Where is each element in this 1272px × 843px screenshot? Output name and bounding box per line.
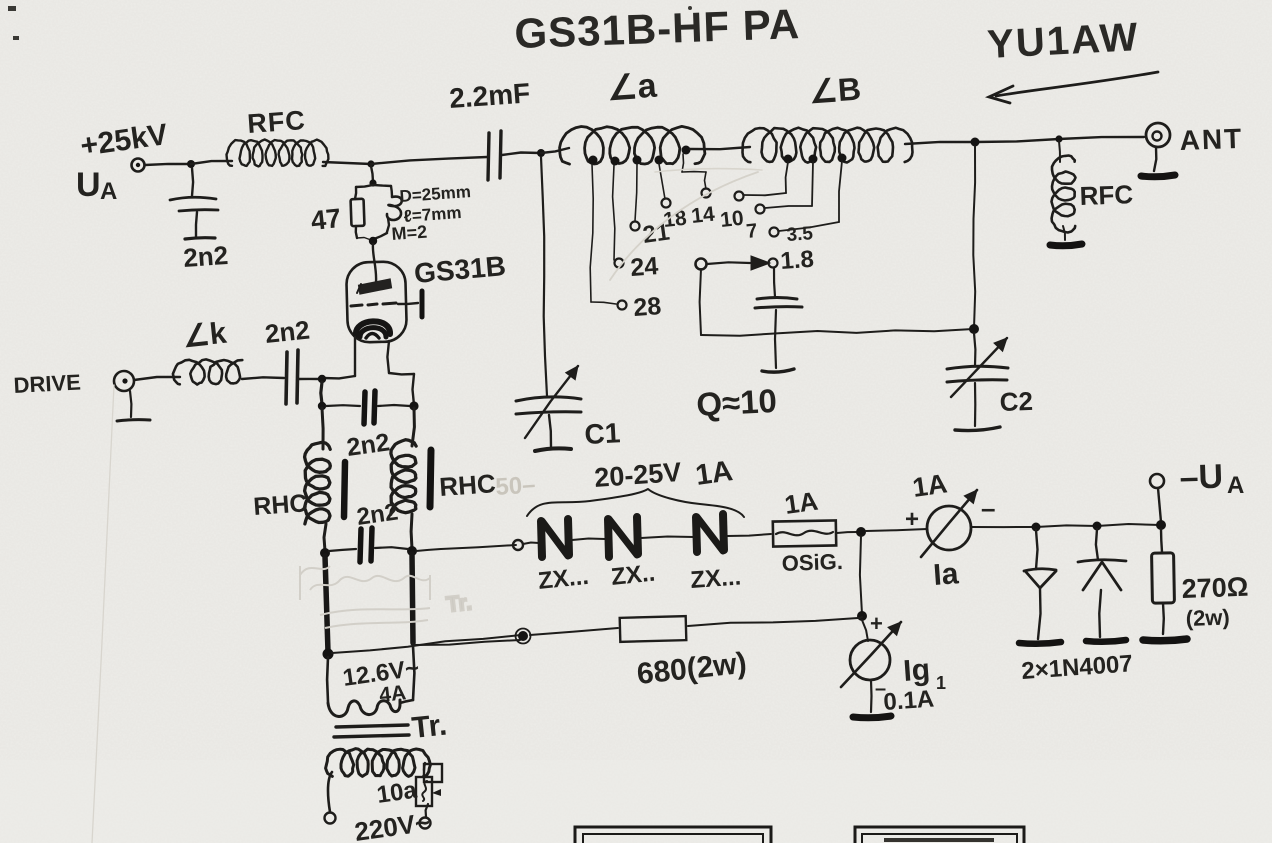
- wire junction to choke: [191, 161, 232, 164]
- wire node down: [371, 166, 373, 182]
- wire cathode to zener line: [416, 545, 516, 551]
- zener diode ZX 1: [541, 519, 569, 557]
- wire node down: [321, 382, 322, 404]
- terminal primary left: [325, 813, 336, 824]
- svg-text:7: 7: [745, 220, 758, 243]
- diode 1N4007 second: [1078, 529, 1126, 637]
- label plus Ig: [870, 611, 883, 636]
- svg-text:–U: –U: [1179, 458, 1224, 497]
- label 47: [309, 203, 342, 236]
- svg-text:M=2: M=2: [391, 222, 428, 244]
- label ZX 1: [537, 563, 590, 595]
- svg-text:2n2: 2n2: [263, 314, 311, 349]
- label 4A: [378, 681, 407, 707]
- tube anode plate: [357, 279, 391, 293]
- svg-text:RHC: RHC: [438, 468, 497, 502]
- capacitor 2n2 cathode top: [326, 391, 410, 424]
- node fuse meter: [856, 527, 866, 537]
- ghost erased transformer: [300, 566, 473, 628]
- wire choke to node: [323, 162, 371, 164]
- diode 1N4007 first: [1024, 530, 1056, 639]
- wire zener segment 1: [523, 543, 539, 545]
- capacitor 2.2nF coupling: [488, 131, 501, 180]
- node tank top: [537, 149, 545, 157]
- label Ia: [932, 557, 960, 592]
- faint fold line: [92, 385, 114, 843]
- wire zener to fuse: [727, 534, 771, 536]
- variable capacitor C2: [947, 338, 1008, 431]
- svg-text:2n2: 2n2: [355, 498, 400, 530]
- inductor RHC left: [305, 408, 331, 551]
- vacuum tube GS31B envelope: [346, 261, 407, 343]
- node RFC output: [1055, 135, 1062, 142]
- wire Ia meter to UA node: [971, 524, 1160, 527]
- wire tap 24: [613, 165, 615, 260]
- ground Ig meter: [853, 716, 891, 718]
- wire lower bias line left: [332, 635, 521, 653]
- svg-text:1A: 1A: [783, 486, 820, 520]
- wire cap to cathode node: [299, 378, 320, 381]
- node anode feed junction: [187, 160, 195, 168]
- label 1A fuse: [783, 486, 820, 520]
- ground ANT: [1141, 175, 1175, 177]
- meter Ig1: [841, 622, 901, 687]
- label Lk: [181, 317, 228, 354]
- terminal UA anode supply: [132, 159, 145, 172]
- label 20-25V 1A: [593, 455, 734, 493]
- svg-text:Q≈10: Q≈10: [695, 382, 777, 423]
- switch contact 7: [745, 205, 764, 243]
- label C2: [999, 386, 1033, 417]
- wire down to C2: [973, 146, 975, 328]
- ground RFC choke: [1050, 244, 1082, 246]
- svg-text:(2w): (2w): [1185, 604, 1230, 631]
- wire node to Ia meter: [866, 529, 927, 531]
- node Ig: [857, 611, 867, 621]
- pencil ghost arc taps: [610, 169, 762, 280]
- ground 270 ohm: [1143, 639, 1187, 641]
- label 0.1A: [883, 686, 935, 716]
- switch wiper arm: [696, 256, 771, 270]
- node zener line start: [513, 540, 523, 550]
- svg-text:RFC: RFC: [1079, 179, 1134, 211]
- wire tap 14: [682, 154, 706, 189]
- switch contact 21: [631, 218, 672, 248]
- svg-text:OSiG.: OSiG.: [781, 549, 843, 576]
- svg-text:∠k: ∠k: [181, 317, 228, 354]
- terminal DRIVE: [114, 371, 134, 391]
- svg-text:Ia: Ia: [932, 557, 960, 592]
- wire heater right to bias: [412, 640, 520, 645]
- node parasitic suppressor top: [367, 160, 374, 167]
- svg-text:GS31B-HF PA: GS31B-HF PA: [514, 0, 801, 57]
- wire bias to 680: [530, 628, 618, 635]
- capacitor 2n2 drive coupling: [286, 350, 298, 404]
- wire UA to junction: [145, 164, 191, 165]
- fuse primary 10A: [416, 764, 442, 806]
- svg-text:Tr.: Tr.: [445, 589, 473, 617]
- svg-text:2.2mF: 2.2mF: [448, 77, 531, 114]
- svg-text:U: U: [76, 166, 101, 204]
- node Q line and C2: [969, 324, 979, 334]
- svg-text:Ig: Ig: [902, 653, 931, 688]
- wire switch common down: [700, 269, 701, 335]
- svg-text:14: 14: [690, 203, 716, 228]
- wire tap 3.5: [779, 161, 842, 231]
- wire zener segment 2: [572, 539, 605, 541]
- wire choke to ground: [1063, 226, 1065, 240]
- switch contact 10: [719, 192, 745, 232]
- wire node to C2: [974, 333, 975, 366]
- svg-text:RFC: RFC: [246, 105, 306, 139]
- node cathode bottom right: [407, 546, 417, 556]
- wire node to coupling cap: [371, 157, 487, 164]
- svg-text:ANT: ANT: [1179, 123, 1244, 156]
- label minus Ia: [981, 493, 995, 523]
- label 680 2W: [635, 647, 748, 691]
- svg-text:1A: 1A: [694, 455, 735, 492]
- label 2n2 cathode bottom: [355, 498, 400, 530]
- node minus UA: [1156, 520, 1166, 530]
- transformer primary winding: [326, 749, 431, 777]
- switch contact 18: [662, 199, 689, 232]
- svg-text:YU1AW: YU1AW: [986, 15, 1140, 67]
- switch contact 24: [615, 252, 660, 282]
- svg-text:DRIVE: DRIVE: [13, 370, 81, 398]
- svg-text:1A: 1A: [911, 468, 949, 503]
- inductor RFC anode choke: [227, 140, 329, 167]
- wire minus UA to node: [1158, 488, 1161, 522]
- tube cathode legs: [323, 337, 414, 405]
- transformer secondary winding: [328, 700, 400, 716]
- svg-text:2n2: 2n2: [182, 240, 229, 273]
- wire node to bias line: [858, 617, 862, 618]
- wire tap 10: [744, 162, 788, 195]
- label M=2: [391, 222, 428, 244]
- wire switch line to C2: [701, 329, 973, 336]
- fuse 1A OSiG: [773, 520, 836, 546]
- svg-text:0.1A: 0.1A: [883, 686, 935, 716]
- tube grid lead and ground bar: [398, 291, 422, 317]
- svg-text:3.5: 3.5: [786, 223, 814, 246]
- svg-text:20-25V: 20-25V: [593, 457, 682, 493]
- stamp box left: [575, 827, 771, 843]
- capacitor 2n2 cathode bottom: [329, 528, 408, 562]
- brace over zeners: [527, 489, 744, 517]
- wire tap 7: [765, 162, 813, 208]
- resistor 680 2W: [620, 616, 687, 642]
- node cathode bottom left: [320, 548, 330, 558]
- label 12.6V: [341, 655, 421, 692]
- wire primary right to fuse: [424, 763, 425, 770]
- svg-text:1.8: 1.8: [780, 246, 815, 275]
- switch contact 28: [618, 292, 663, 322]
- label Q approx 10: [695, 382, 777, 423]
- wire 680 to Ig node: [688, 618, 858, 626]
- label l=7mm: [403, 203, 462, 226]
- switch contact 14: [690, 189, 716, 228]
- label minus Ig: [875, 678, 886, 700]
- label minus UA: [1179, 458, 1244, 499]
- svg-text:∠a: ∠a: [606, 67, 659, 108]
- wire rail right heavy: [412, 554, 413, 643]
- core bar RHC left: [344, 462, 345, 517]
- node cathode left: [318, 375, 326, 383]
- label 2W: [1185, 604, 1230, 631]
- label Ig1: [902, 653, 946, 693]
- wire Lk to cap: [242, 377, 284, 379]
- transformer core: [334, 725, 409, 737]
- label LB: [808, 70, 862, 110]
- svg-text:50–: 50–: [495, 471, 537, 501]
- svg-text:10a: 10a: [375, 777, 419, 809]
- label plus Ia: [905, 506, 919, 533]
- label ZX 3: [690, 564, 742, 594]
- node diode 1: [1032, 523, 1041, 532]
- label RFC output: [1079, 179, 1134, 211]
- wire Ig branch down: [860, 536, 862, 614]
- node heater left: [323, 649, 334, 660]
- node suppressor top: [369, 179, 376, 186]
- svg-text:A: A: [1227, 472, 1244, 499]
- core bar RHC right: [430, 450, 431, 507]
- label D=25mm: [399, 182, 472, 206]
- svg-text:A: A: [100, 178, 117, 205]
- resistor 270 ohm: [1152, 529, 1175, 634]
- wire LB to ANT: [905, 137, 1144, 144]
- node cathode right 2: [409, 401, 418, 410]
- wire heater node down: [326, 657, 329, 702]
- title GS31B-HF PA: [514, 0, 801, 57]
- svg-text:–: –: [981, 493, 995, 523]
- label UA supply: [76, 166, 117, 205]
- label RFC anode choke: [246, 105, 306, 139]
- wire tap 18: [659, 164, 665, 199]
- wire La to LB: [690, 147, 750, 149]
- wire tap 21: [635, 164, 637, 221]
- stamp box right: [855, 827, 1024, 843]
- tube grid dashed: [351, 303, 396, 306]
- tap dots LB: [784, 154, 847, 164]
- label 2.2nF: [448, 77, 531, 114]
- svg-text:2n2: 2n2: [345, 428, 392, 462]
- terminal ANT: [1146, 123, 1170, 147]
- ground diode 2: [1086, 640, 1126, 642]
- zener diode ZX 2: [608, 517, 638, 557]
- svg-text:10: 10: [719, 207, 745, 232]
- inductor suppressor coil: [374, 185, 402, 239]
- label RHC left: [252, 489, 308, 521]
- author YU1AW: [986, 15, 1158, 103]
- wire fuse down: [426, 804, 428, 817]
- svg-text:28: 28: [632, 292, 662, 322]
- label ANT: [1179, 123, 1244, 156]
- wire secondary right up: [400, 646, 414, 703]
- svg-text:24: 24: [629, 252, 659, 282]
- wire Ig meter to ground: [870, 680, 873, 712]
- inductor Lk: [173, 359, 242, 384]
- svg-text:C2: C2: [999, 386, 1033, 417]
- zener diode ZX 3: [696, 514, 724, 552]
- svg-text:∠B: ∠B: [808, 70, 862, 110]
- wire suppressor to anode: [373, 244, 376, 282]
- node bias left circle: [516, 629, 531, 644]
- svg-text:+: +: [870, 611, 883, 636]
- wire rail left heavy: [325, 556, 328, 652]
- svg-text:+: +: [905, 506, 919, 533]
- tap dots La: [589, 156, 664, 166]
- wire to RFC output choke: [1059, 141, 1060, 162]
- label 1A Ia: [911, 468, 949, 503]
- label DRIVE: [13, 370, 81, 398]
- label C1: [584, 417, 621, 450]
- label 2n2 drive: [263, 314, 311, 349]
- svg-text:1: 1: [936, 673, 946, 693]
- meter Ia: [921, 490, 977, 557]
- wire cap to tank node: [502, 153, 540, 156]
- wire tap 28: [590, 164, 616, 304]
- svg-text:Tr.: Tr.: [410, 708, 448, 744]
- svg-text:RHC: RHC: [252, 489, 308, 521]
- svg-text:ZX...: ZX...: [690, 564, 742, 594]
- ground diode 1: [1019, 642, 1061, 644]
- wire fuse to node: [837, 532, 858, 533]
- ground DRIVE: [117, 391, 150, 421]
- label OSiG: [781, 549, 843, 576]
- node C2 top: [971, 138, 980, 147]
- label 2n2 cathode top: [345, 428, 392, 462]
- variable capacitor C1: [516, 366, 581, 451]
- resistor 47 parasitic suppressor: [351, 185, 373, 240]
- wire DRIVE to Lk: [134, 377, 180, 380]
- pencil label 50 ohm: [495, 471, 537, 501]
- switch contact 3.5: [770, 223, 815, 246]
- svg-text:ZX..: ZX..: [610, 560, 657, 591]
- switch contact 1.8: [769, 246, 815, 275]
- node diode 2: [1093, 522, 1102, 531]
- label RHC right: [438, 468, 497, 502]
- label 10A fuse: [375, 777, 419, 809]
- svg-text:18: 18: [662, 207, 688, 232]
- terminal minus UA: [1150, 474, 1164, 488]
- inductor La tank coil: [560, 126, 705, 164]
- wire tank node down to C1: [541, 157, 547, 396]
- label 2n2: [182, 240, 229, 273]
- label ZX 2: [610, 560, 657, 591]
- wire zener segment 3: [641, 537, 694, 539]
- inductor RFC output choke: [1052, 156, 1076, 233]
- capacitor 1.8 band padding: [755, 268, 802, 372]
- capacitor 2n2 anode bypass: [170, 168, 218, 239]
- node cathode left 2: [318, 402, 326, 410]
- wire primary left: [328, 772, 332, 812]
- scan specks: [8, 6, 692, 40]
- svg-text:270Ω: 270Ω: [1181, 572, 1249, 604]
- inductor LB tank coil: [743, 128, 913, 163]
- label 220V: [353, 807, 432, 843]
- wire Ig node to meter: [862, 620, 868, 641]
- wire ANT to ground: [1154, 147, 1156, 171]
- label La: [606, 67, 659, 108]
- svg-text:C1: C1: [584, 417, 621, 450]
- label 2x1N4007: [1021, 650, 1134, 685]
- terminal primary right: [420, 818, 431, 829]
- label +25kV: [78, 118, 169, 163]
- svg-text:47: 47: [309, 203, 342, 236]
- label 270 ohm: [1181, 572, 1249, 604]
- wire tank node to La: [541, 148, 569, 153]
- node La end: [682, 146, 691, 155]
- tube cathode heater: [356, 321, 390, 338]
- label Tr: [410, 708, 448, 744]
- node suppressor bottom: [369, 237, 377, 245]
- svg-text:ZX...: ZX...: [537, 563, 590, 595]
- inductor RHC right: [391, 408, 416, 549]
- label GS31B tube: [413, 250, 507, 289]
